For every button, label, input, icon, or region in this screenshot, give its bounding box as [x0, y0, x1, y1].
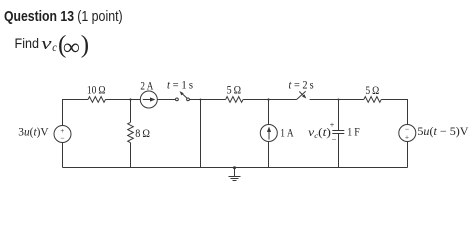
- wire node B down: [268, 100, 270, 125]
- resistor R1 10ohm: [88, 97, 106, 103]
- wire V1 to bottom: [62, 143, 64, 168]
- capacitor C1 top plate: [332, 130, 344, 132]
- svg-text:t = 1 s: t = 1 s: [167, 79, 193, 92]
- svg-text:+: +: [405, 132, 409, 141]
- switch S1 contact left: [176, 98, 179, 101]
- svg-text:1 F: 1 F: [347, 126, 360, 139]
- svg-text:5 Ω: 5 Ω: [365, 84, 379, 97]
- junction dot node B: [267, 98, 269, 100]
- wire R2 to switch S2: [243, 99, 297, 101]
- resistor R4 8ohm: [128, 122, 134, 142]
- resistor R2 5ohm: [226, 97, 244, 103]
- ground stem: [234, 168, 236, 177]
- ground bar 3: [233, 180, 237, 182]
- svg-text:t = 2 s: t = 2 s: [289, 79, 314, 92]
- arrow of I2: [268, 131, 270, 140]
- current source I1 2A: [140, 91, 157, 108]
- resistor R3 5ohm: [364, 97, 382, 103]
- voltage source V2: [399, 125, 416, 142]
- wire I2 to bottom: [268, 141, 270, 167]
- arrow of I1: [143, 99, 151, 101]
- switch S1 contact right: [187, 98, 190, 101]
- svg-text:Find: Find: [15, 36, 40, 51]
- svg-text:2 A: 2 A: [140, 79, 153, 92]
- svg-text:3u(t)V: 3u(t)V: [18, 126, 49, 138]
- junction dot node A: [129, 98, 131, 100]
- wire cap to bottom: [338, 134, 340, 168]
- svg-text:+: +: [330, 120, 335, 130]
- svg-text:10 Ω: 10 Ω: [87, 84, 106, 97]
- svg-text:c: c: [52, 40, 57, 54]
- capacitor C1 bottom plate: [332, 133, 344, 135]
- junction dot cap top: [338, 99, 340, 101]
- switch S2 blade: [297, 91, 306, 99]
- wire S2 to R3: [310, 99, 364, 101]
- junction dot mid rail top: [200, 99, 202, 101]
- junction dot ground: [233, 166, 236, 169]
- switch S1 blade: [181, 93, 187, 99]
- wire R4 to bottom: [130, 143, 132, 168]
- voltage source V1: [54, 126, 71, 143]
- svg-text:−: −: [332, 134, 337, 144]
- wire I1 to switch S1: [157, 99, 175, 101]
- arrow of switch S1: [180, 91, 184, 95]
- svg-text:−: −: [60, 133, 64, 142]
- ground bar 2: [231, 178, 239, 180]
- svg-text:v: v: [41, 34, 52, 53]
- svg-text:): ): [81, 31, 89, 58]
- svg-text:5u(t − 5)V: 5u(t − 5)V: [417, 126, 469, 138]
- svg-text:∞: ∞: [63, 35, 80, 60]
- wire node A down: [130, 100, 132, 123]
- wire mid rail: [200, 100, 202, 168]
- wire top left: [63, 100, 89, 126]
- switch S2 arrow line: [299, 92, 305, 98]
- svg-text:1 A: 1 A: [280, 127, 294, 140]
- wire V2 to bottom: [407, 141, 409, 167]
- arrow of switch S2: [302, 94, 306, 98]
- svg-text:(1 point): (1 point): [77, 8, 123, 25]
- svg-text:vc(t): vc(t): [308, 126, 331, 140]
- svg-text:Question 13: Question 13: [4, 8, 74, 25]
- current source I2 1A: [260, 125, 277, 142]
- wire cap top: [338, 100, 340, 131]
- wire R1 to I1: [106, 99, 141, 101]
- bottom wire: [63, 167, 408, 169]
- svg-text:5 Ω: 5 Ω: [227, 84, 242, 97]
- wire top right: [381, 100, 407, 125]
- svg-text:8 Ω: 8 Ω: [135, 127, 150, 140]
- ground bar 1: [229, 176, 241, 178]
- wire switch S1 to node: [189, 99, 225, 101]
